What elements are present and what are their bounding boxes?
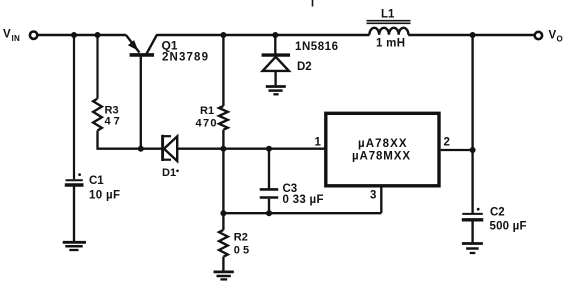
svg-text:470: 470 [196,118,217,130]
inductor L1 winding [369,28,408,35]
transistor Q1 emitter with arrow [126,35,140,53]
wire D2 anode to ground [274,71,276,85]
svg-text:R3: R3 [105,105,119,117]
svg-text:Q1: Q1 [162,39,178,53]
input terminal VIN [30,32,37,39]
capacitor C3 plates [260,188,279,191]
svg-text:µA78MXX: µA78MXX [352,150,410,162]
svg-text:IN: IN [12,34,21,43]
wire pin 3 stub [380,187,382,213]
resistor R3 [93,99,102,131]
svg-text:R1: R1 [200,105,214,117]
svg-text:1: 1 [315,136,322,148]
C2 polarity mark [477,208,480,211]
wire C1 to ground [73,187,75,242]
ground C2 [462,242,483,245]
wire C3 top lead [268,149,270,190]
junction C1 tap [71,32,77,38]
wire C1 branch down [73,35,75,179]
svg-text:µA78XX: µA78XX [358,138,407,150]
svg-text:R2: R2 [234,231,248,243]
ground C1 [63,241,86,244]
junction R2 tee [220,210,226,216]
svg-text:3: 3 [370,190,376,202]
junction D2 tap [272,32,278,38]
svg-text:D1: D1 [162,167,176,179]
wire L1 to VO (output rail right) [408,34,534,37]
junction R3 tap [95,32,101,38]
svg-text:4 7: 4 7 [105,116,120,128]
transistor Q1 collector [146,35,157,54]
regulator U1 box [326,113,439,186]
diode D2 triangle (pointing up) [263,57,289,71]
ground D2 [266,85,286,88]
diode D2 lead from rail [274,35,276,54]
wire pin 2 to output node [441,149,473,151]
wire C3 bottom lead [268,199,270,213]
capacitor C2 plates [462,213,483,215]
svg-text:D2: D2 [297,61,312,73]
junction R1 tap [220,32,226,38]
svg-text:V: V [549,30,557,42]
diode D2 cathode bar [262,53,290,56]
svg-text:1 mH: 1 mH [376,37,405,49]
capacitor C1 plates [66,179,83,181]
svg-text:1N5816: 1N5816 [295,41,338,53]
svg-text:2N3789: 2N3789 [162,52,208,64]
junction C3 bottom [266,210,272,216]
junction R1 bottom [220,146,226,152]
svg-text:V: V [3,29,11,41]
transistor Q1 base bar [130,53,154,57]
svg-text:0 5: 0 5 [234,245,249,257]
svg-text:L1: L1 [381,9,395,21]
svg-text:500 µF: 500 µF [490,220,527,232]
wire R3 bottom to D1 node [96,148,162,150]
inductor L1 core bars [367,20,411,22]
wire Q1 collector to L1 (output rail left) [157,34,370,37]
diode D1 cathode bar [161,135,164,161]
transistor Q1 base lead down [140,57,142,149]
svg-text:C3: C3 [283,183,298,195]
svg-text:10 µF: 10 µF [89,190,120,202]
svg-text:2: 2 [444,136,450,148]
junction C3 top [266,146,272,152]
junction Q1 base at D1 line [138,146,144,152]
junction pin 2 at C2 branch [470,147,476,153]
wire VIN to Q1 emitter (input rail) [38,34,126,37]
resistor R1 [222,35,224,106]
stray scan tick top center [312,0,314,7]
wire R1 node down to R2 tee [222,149,224,214]
wire D1 anode to regulator pin 1 [177,148,326,150]
svg-text:C1: C1 [89,175,104,187]
wire R3 branch down [96,35,98,99]
resistor R2 [222,213,224,230]
C1 polarity mark [78,173,81,176]
ground R2 [214,270,234,273]
label VO [549,30,563,44]
wire output node vertical (rail to C2) [471,35,473,213]
output terminal VO [535,32,542,39]
junction C2 tap [470,32,476,38]
wire pin 3 to R2 tee [223,212,381,214]
svg-text:O: O [557,35,563,44]
label VIN [3,29,20,44]
wire C2 to ground [471,221,473,242]
svg-text:0 33 µF: 0 33 µF [283,194,324,206]
svg-text:C2: C2 [490,207,505,219]
diode D1 triangle (pointing left) [164,136,177,161]
